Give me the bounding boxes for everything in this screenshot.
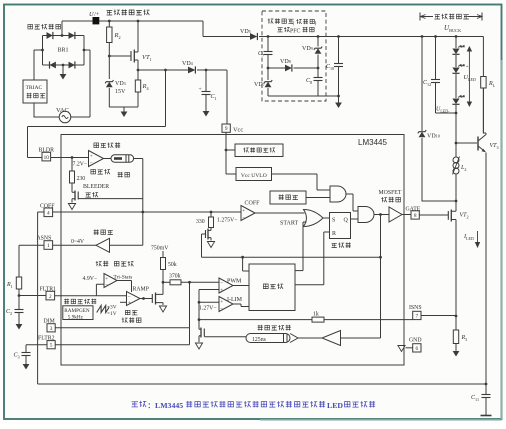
wire tri-state output	[117, 281, 132, 293]
node bridge bottom junction	[62, 64, 65, 67]
svg-text:1.275V−: 1.275V−	[217, 218, 238, 224]
ramp MOSFET	[151, 294, 153, 303]
wire PWM plus sense line	[199, 290, 219, 327]
diode VD4	[188, 67, 195, 74]
resistor R1	[16, 277, 21, 289]
svg-text:1k: 1k	[313, 312, 319, 318]
node fuse-R2 junction	[108, 20, 111, 23]
wire DIM to PWM node	[55, 282, 189, 327]
wire gate node down to zener	[108, 56, 110, 79]
label PFC line2 无源PFC电路	[277, 28, 282, 32]
svg-text:7.2V−: 7.2V−	[73, 162, 88, 168]
internal regulator box 内部稳压器	[235, 144, 283, 157]
wire PFC bottom	[268, 95, 339, 97]
svg-text:R: R	[332, 231, 336, 237]
svg-text:+: +	[220, 287, 223, 293]
svg-text:MOSFET: MOSFET	[379, 190, 402, 196]
svg-text:750mV: 750mV	[151, 246, 169, 252]
resistor R2	[108, 21, 110, 27]
svg-text:330: 330	[196, 219, 205, 225]
SR latch box	[330, 213, 351, 239]
capacitor C1 (polarized)	[205, 70, 207, 91]
wire VD4 to C1 and Vcc pin	[197, 70, 227, 124]
label 斜坡产生器	[64, 299, 69, 304]
capacitor C12	[435, 37, 437, 80]
wire buffer input	[110, 244, 143, 246]
wire VT1 source to Vcc node	[137, 60, 139, 70]
node bridge top junction	[61, 34, 64, 37]
wire R1 to FLTR1	[19, 295, 46, 297]
ground below C1	[203, 111, 210, 117]
wire FLTR2 to C3	[26, 345, 47, 352]
AND gate U2	[330, 186, 346, 202]
wire COFF out to OR	[255, 212, 305, 214]
wire BLDR internal	[51, 157, 89, 159]
svg-text:1: 1	[47, 243, 50, 249]
svg-text:+: +	[128, 300, 131, 306]
comparator tri-state dim decoder	[104, 274, 117, 288]
svg-text:VAC: VAC	[56, 107, 69, 114]
wire delay output down	[134, 159, 143, 246]
svg-text:+: +	[105, 276, 108, 282]
svg-text:VT3: VT3	[490, 143, 499, 150]
fuse U1 (line voltage sense)	[93, 17, 100, 24]
buffer 缓冲器	[94, 229, 99, 235]
ground under ramp MOSFET	[159, 306, 166, 312]
wire branch to tri-state comparator	[96, 284, 104, 295]
svg-text:TRIAC: TRIAC	[26, 85, 43, 91]
node bridge left	[41, 49, 44, 52]
svg-text:LM3445: LM3445	[155, 401, 183, 410]
svg-text:PWM: PWM	[227, 279, 242, 285]
LED string D2	[455, 55, 457, 67]
svg-text:C8: C8	[306, 78, 312, 85]
diode BR1 bottom-left	[50, 62, 56, 69]
svg-text:230: 230	[77, 176, 86, 182]
LM3445 IC boundary box	[61, 135, 404, 366]
svg-text:GND: GND	[409, 338, 422, 344]
svg-text:C7: C7	[258, 51, 264, 58]
svg-text:5: 5	[50, 343, 53, 349]
diode VD8	[268, 67, 285, 69]
wire VT1 drain to top rail	[137, 21, 139, 52]
svg-text:3: 3	[50, 326, 53, 332]
node 330 tap	[210, 211, 213, 214]
label bridge rectifier 桥式整流器	[28, 24, 33, 28]
label 延迟	[118, 172, 123, 178]
diode BR1 top-right	[69, 32, 75, 39]
svg-text:+: +	[220, 299, 223, 305]
LED string D3	[455, 74, 457, 98]
svg-text:−: −	[220, 281, 223, 287]
TRIAC dimmer box	[23, 80, 47, 103]
wire into controller top-left	[243, 257, 249, 271]
U_LED measurement arrow	[467, 47, 471, 106]
svg-text:C3: C3	[14, 353, 20, 360]
wire 1k to ISNS pin	[199, 319, 312, 321]
svg-text:C11: C11	[471, 395, 479, 402]
label 角度检测	[94, 143, 99, 148]
valley-fill PFC dashed box	[262, 11, 326, 101]
svg-text:+: +	[242, 208, 245, 214]
svg-text:370k: 370k	[169, 274, 181, 280]
svg-text:2: 2	[49, 294, 52, 300]
buck converter bracket 降压变换器	[419, 13, 421, 21]
svg-text:C10: C10	[326, 64, 334, 71]
svg-text:−: −	[220, 306, 223, 312]
edge blanking 125ns block 上升沿消隐	[258, 325, 263, 331]
svg-text:RL: RL	[488, 81, 496, 88]
svg-text:+: +	[90, 153, 93, 159]
svg-text:U /+: U /+	[89, 11, 100, 18]
ground under blanking MOSFET	[195, 343, 202, 349]
resistor 50k	[161, 258, 166, 270]
node delay crossing	[141, 211, 144, 214]
ground below bridge	[62, 65, 64, 74]
transistor VT3 (PNP bipolar)	[477, 137, 479, 151]
zener diode VD9	[317, 35, 320, 38]
zener diode VD10	[421, 37, 423, 132]
wire discharge gate from controller	[202, 234, 206, 257]
svg-text:RAMPGEN: RAMPGEN	[64, 308, 90, 314]
ground below C10	[338, 96, 340, 103]
LED string D1	[455, 37, 457, 49]
ground below C2	[16, 324, 23, 330]
bleeder MOSFET	[74, 191, 76, 201]
wire ILIM plus	[199, 301, 219, 303]
wire FLTR2 internal	[55, 328, 189, 345]
wire VT1 gate	[109, 55, 131, 57]
svg-text:：: ：	[148, 402, 155, 410]
Vcc UVLO box	[236, 168, 272, 181]
inverter triangle	[322, 331, 341, 346]
wire driver to GATE pin	[402, 214, 411, 216]
resistor 230 bleeder	[71, 158, 73, 172]
svg-text:15V: 15V	[115, 89, 126, 95]
node L2 / VD10	[455, 200, 458, 203]
resistor R4	[137, 92, 139, 107]
bridge rectifier BR1 outline	[43, 36, 85, 66]
svg-text:ULED-: ULED-	[436, 107, 450, 114]
capacitor C3	[22, 352, 31, 354]
comparator angle detect	[89, 151, 104, 167]
svg-text:): )	[315, 20, 317, 27]
AND gate U3	[358, 207, 374, 223]
capacitor C7	[267, 37, 269, 52]
RAMPGEN box	[63, 306, 93, 320]
wire blanking rail y257	[202, 256, 381, 258]
wire Vcc feed	[138, 69, 166, 71]
wire zener to bottom	[108, 88, 110, 107]
wire inverter input from gate drive	[341, 215, 381, 339]
svg-text:S: S	[332, 218, 335, 224]
svg-text:LED: LED	[327, 401, 343, 410]
svg-text:I-LIM: I-LIM	[227, 297, 243, 303]
resistor 1k	[312, 317, 324, 322]
svg-text:Vcc UVLO: Vcc UVLO	[241, 173, 267, 179]
svg-text:R3: R3	[461, 335, 468, 342]
svg-text:ISNS: ISNS	[409, 305, 422, 311]
zener diode VD3 15V	[106, 82, 113, 88]
wire bottom of startup divider	[109, 106, 138, 108]
svg-text:+: +	[466, 64, 469, 70]
ground below C3	[23, 364, 30, 370]
transistor VT1 (pass MOSFET)	[130, 51, 132, 61]
MOSFET driver triangle	[389, 207, 402, 222]
resistor R3	[455, 316, 457, 330]
svg-text:L2: L2	[460, 165, 466, 172]
svg-text:7: 7	[416, 314, 419, 320]
svg-text:9: 9	[225, 126, 228, 132]
wire PWM out to controller	[233, 285, 249, 287]
comparator COFF	[241, 206, 255, 221]
node C7 top	[267, 35, 270, 38]
wire blanking gate	[204, 336, 246, 338]
svg-text:Vcc: Vcc	[233, 127, 243, 134]
wire OR out to S	[323, 217, 330, 219]
wire GATE to VT2 gate	[419, 214, 448, 216]
resistor RL	[481, 77, 486, 89]
capacitor C8	[317, 68, 319, 77]
svg-text:START: START	[280, 221, 298, 227]
svg-text:C2: C2	[6, 309, 12, 316]
resistor 330 + discharge MOSFET	[210, 212, 212, 217]
svg-text:4.9V−: 4.9V−	[83, 276, 98, 282]
svg-text:125ns: 125ns	[252, 337, 267, 343]
svg-text:−: −	[242, 215, 245, 221]
wire R input from controller	[295, 232, 330, 285]
pin 9 Vcc	[222, 124, 230, 132]
svg-text:BLEEDER: BLEEDER	[83, 184, 109, 190]
capacitor C11	[485, 384, 487, 394]
wire COFF pin left down to rail	[38, 212, 44, 384]
wire bottom return rail	[38, 383, 486, 385]
wire Q to AND2	[351, 218, 359, 220]
controller box 控制器	[249, 264, 295, 311]
diode BR1 bottom-right	[69, 62, 75, 69]
wire ILIM out to controller	[233, 304, 249, 307]
wire ASNS internal to buffer	[53, 244, 96, 246]
wire UVLO to AND1	[272, 174, 331, 190]
wire AND1 out to AND2	[346, 194, 358, 211]
ground below R3	[453, 351, 460, 357]
svg-text:6: 6	[416, 346, 419, 352]
capacitor C10	[337, 35, 340, 38]
svg-text:+: +	[199, 87, 202, 93]
wire Vcc pin into regulator	[226, 132, 236, 174]
wire thermal to AND1	[306, 197, 330, 199]
svg-text:1V: 1V	[110, 311, 117, 317]
svg-text:3V: 3V	[110, 305, 117, 311]
OR gate (start)	[304, 210, 324, 227]
svg-text:Q: Q	[344, 218, 349, 224]
svg-text:4: 4	[47, 211, 50, 217]
ground under bleeder	[68, 204, 75, 210]
label 斜坡 比较器	[125, 310, 130, 314]
wire FLTR1 internal	[55, 295, 127, 297]
capacitor C2	[18, 296, 20, 310]
svg-text:50k: 50k	[168, 262, 177, 268]
label PFC line1 部分滤波(填谷式)	[268, 18, 274, 23]
wire COFF pin rail	[53, 211, 241, 213]
svg-text:PFC: PFC	[290, 29, 300, 35]
label 锁存器	[332, 243, 337, 247]
wire bridge top to fuse rail	[61, 21, 63, 36]
wire controller upper output	[295, 270, 303, 272]
node LED bottom / C12	[455, 112, 458, 115]
wire top rail	[62, 21, 250, 37]
svg-text:(: (	[293, 20, 295, 27]
svg-text:C1: C1	[211, 94, 217, 101]
thermal shutdown box 热关断	[270, 191, 306, 204]
wire bridge left to TRIAC	[34, 50, 43, 80]
diode VD5	[250, 33, 257, 40]
wire RAMP output to ramp MOSFET	[140, 298, 152, 300]
resistor 370k	[163, 281, 170, 283]
svg-text:Tri-Stats: Tri-Stats	[114, 275, 133, 281]
ground on divider bottom	[123, 107, 125, 112]
wire ISNS to sense node	[421, 315, 456, 317]
svg-text:1.27V−: 1.27V−	[199, 306, 217, 312]
svg-text:−: −	[90, 161, 93, 167]
inductor L2	[455, 143, 457, 157]
transistor VT2 (buck switch MOSFET)	[455, 201, 457, 211]
delay element	[104, 158, 112, 160]
svg-text:8: 8	[414, 213, 417, 219]
svg-text:VT2: VT2	[460, 213, 469, 220]
wire pill to inverter	[298, 337, 322, 339]
wire R2 to VT1 gate node	[108, 43, 110, 57]
wire VAC to bridge right	[71, 50, 90, 117]
wire BLDR external	[28, 70, 166, 158]
wire 370k to PWM minus	[181, 281, 219, 283]
ground under discharge MOSFET	[207, 242, 214, 248]
svg-text:0~4V: 0~4V	[71, 239, 85, 245]
sawtooth waveform symbol	[97, 306, 109, 313]
wire ASNS to R1	[19, 245, 44, 277]
svg-text:10: 10	[44, 155, 50, 161]
label 比较器	[91, 169, 96, 173]
svg-text:−: −	[105, 282, 108, 288]
wire OR lower input	[303, 222, 307, 271]
wire TRIAC to VAC	[34, 103, 60, 117]
node bridge right	[83, 49, 86, 52]
caption 图一	[132, 401, 376, 410]
svg-text:−: −	[128, 294, 131, 300]
zener diode VD7	[267, 68, 269, 80]
svg-text:R1: R1	[6, 282, 13, 289]
ground bar under C11	[481, 415, 492, 417]
ground symbol at GND pin	[406, 347, 413, 349]
AC source VAC	[59, 111, 71, 123]
wire LED- to VT3 base and L2	[455, 113, 457, 143]
svg-text:RAMP: RAMP	[133, 287, 149, 293]
svg-text:COFF: COFF	[245, 201, 261, 207]
wire sawtooth to RAMP plus	[120, 301, 127, 303]
label 线路电压感测	[107, 10, 113, 15]
wire VT3 emitter down right side	[485, 153, 487, 385]
wire main DC rail	[259, 37, 483, 77]
svg-text:C12: C12	[423, 80, 431, 87]
blanking MOSFET	[200, 328, 202, 338]
label 调光 译码器	[96, 261, 102, 266]
comparator RAMP	[127, 292, 141, 306]
svg-text:LM3445: LM3445	[358, 138, 387, 147]
diode BR1 top-left	[47, 32, 53, 39]
wire AND2 to driver	[374, 214, 389, 216]
comparator I-LIM	[219, 297, 233, 312]
svg-text:5.9kHz: 5.9kHz	[68, 314, 84, 320]
svg-text:GATE: GATE	[406, 207, 421, 213]
wire bleeder gate	[78, 198, 143, 200]
node buck rail joints	[421, 35, 424, 38]
comparator PWM	[219, 278, 233, 293]
svg-text:BR1: BR1	[57, 48, 68, 54]
